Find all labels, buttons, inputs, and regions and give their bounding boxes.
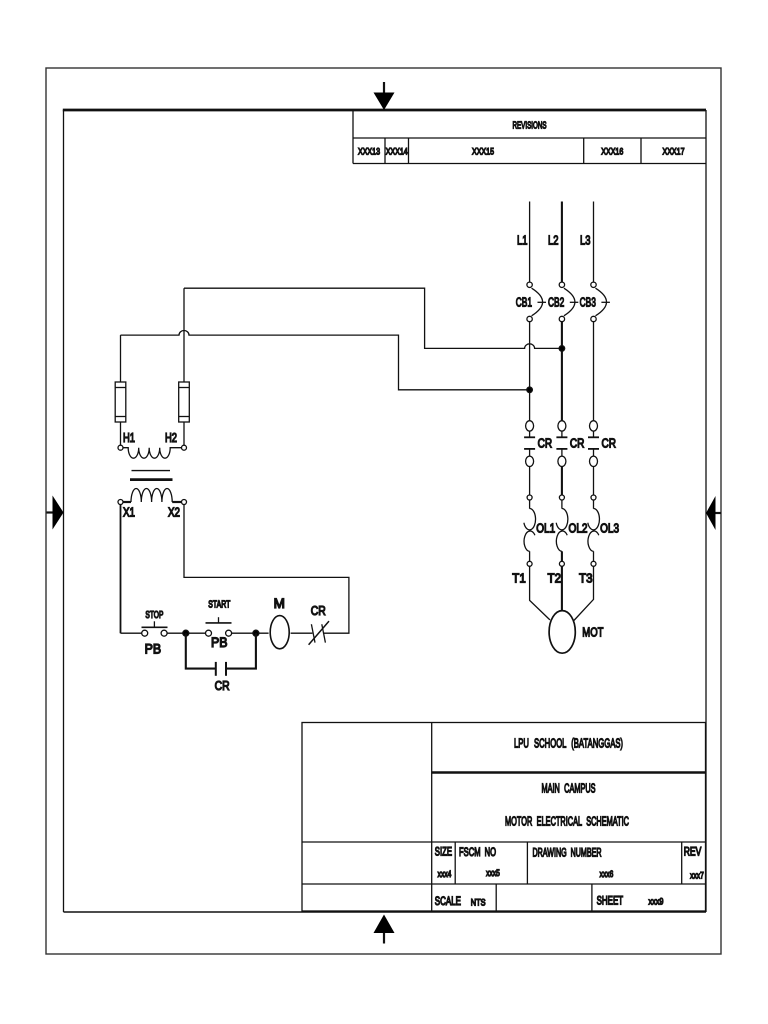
transformer core <box>130 471 173 480</box>
transformer secondary winding <box>123 489 182 503</box>
svg-text:L3: L3 <box>580 233 591 248</box>
svg-text:START: START <box>208 600 230 611</box>
junction on L2 <box>559 346 565 352</box>
svg-text:XXX17: XXX17 <box>663 146 685 157</box>
svg-text:CB3: CB3 <box>580 295 596 310</box>
svg-text:xxx9: xxx9 <box>649 897 664 907</box>
wire start to junction B <box>232 632 269 634</box>
svg-text:MAIN CAMPUS: MAIN CAMPUS <box>542 782 596 796</box>
svg-text:OL1: OL1 <box>536 521 555 536</box>
wire L3 between CB3 and CR contact <box>593 322 595 421</box>
contactor contact CR phase 3 <box>588 421 599 467</box>
right center alignment arrow <box>706 496 721 530</box>
junction on L1 <box>527 387 533 393</box>
svg-text:T1: T1 <box>512 571 526 586</box>
wire L2 between CR and OL2 <box>561 467 563 496</box>
wire T3 to motor <box>574 566 594 620</box>
svg-text:MOT: MOT <box>582 624 603 639</box>
svg-text:CB2: CB2 <box>548 295 564 310</box>
wire rung left segment <box>121 632 142 634</box>
title block size row dividers <box>455 842 682 884</box>
svg-text:XXX15: XXX15 <box>472 146 494 157</box>
wire coil to CR contact <box>291 632 313 634</box>
svg-text:PB: PB <box>211 635 228 650</box>
wire stop to junction <box>167 632 205 634</box>
wire L1 between CR and OL1 <box>529 467 531 496</box>
svg-text:xxx6: xxx6 <box>600 869 614 879</box>
svg-text:NTS: NTS <box>471 898 486 909</box>
wire L1 between CB1 and CR contact <box>529 322 531 421</box>
svg-text:SCALE: SCALE <box>435 896 461 908</box>
contactor contact CR phase 2 <box>556 421 567 467</box>
svg-text:DRAWING NUMBER: DRAWING NUMBER <box>533 848 602 860</box>
wire from control transformer to L1 (lower tie) <box>121 331 530 390</box>
svg-text:H2: H2 <box>165 431 177 445</box>
svg-text:CR: CR <box>602 436 617 451</box>
svg-text:T3: T3 <box>579 571 593 586</box>
wire X1 down to control rung <box>120 505 122 634</box>
svg-text:xxx5: xxx5 <box>486 868 500 878</box>
fuse F1 <box>115 335 126 445</box>
svg-text:SHEET: SHEET <box>597 896 624 908</box>
svg-text:CR: CR <box>215 678 230 693</box>
wire CR to right corner and back to X2 <box>184 505 349 634</box>
coil M <box>270 616 289 649</box>
title block scale row dividers <box>496 884 592 911</box>
circuit breaker CB1 <box>527 282 546 322</box>
wire from control transformer to L2 (upper tie) <box>184 288 562 348</box>
svg-text:SIZE: SIZE <box>435 847 452 859</box>
svg-text:FSCM NO: FSCM NO <box>459 847 496 859</box>
svg-text:OL2: OL2 <box>569 521 588 536</box>
svg-text:CR: CR <box>538 436 553 451</box>
title block company row divider (thick) <box>432 771 706 774</box>
wire L1 phase vertical top <box>529 202 531 283</box>
relay contact CR (NO seal-in) <box>216 662 226 676</box>
svg-text:MOTOR ELECTRICAL SCHEMATIC: MOTOR ELECTRICAL SCHEMATIC <box>505 815 629 829</box>
transformer primary terminal H1 <box>118 445 123 450</box>
pushbutton STOP (NC) <box>142 621 168 636</box>
svg-text:XXX13: XXX13 <box>358 146 380 157</box>
junction node A <box>183 630 189 636</box>
wire L3 between CR and OL3 <box>593 467 595 496</box>
title block row lines <box>432 842 706 884</box>
overload heater OL1 <box>524 495 536 566</box>
svg-text:XXX16: XXX16 <box>601 146 623 157</box>
svg-text:CR: CR <box>570 436 585 451</box>
title block outline <box>302 723 706 912</box>
wire L2 between CB2 and CR contact <box>561 322 563 421</box>
svg-text:CB1: CB1 <box>516 295 532 310</box>
top center alignment arrow <box>374 82 395 110</box>
svg-text:XXX14: XXX14 <box>386 146 408 157</box>
bottom center alignment arrow <box>374 915 395 944</box>
svg-text:CR: CR <box>311 603 326 618</box>
motor MOT <box>549 611 575 654</box>
svg-text:H1: H1 <box>123 431 135 445</box>
overload heater OL2 <box>556 495 568 566</box>
relay contact CR (NC) <box>309 621 329 645</box>
junction node B <box>253 630 259 636</box>
svg-text:xxx7: xxx7 <box>690 871 704 881</box>
title block left divider <box>431 723 433 912</box>
wire L2 phase vertical top <box>561 202 563 283</box>
svg-text:STOP: STOP <box>145 610 163 621</box>
circuit breaker CB3 <box>591 282 610 322</box>
svg-text:REVISIONS: REVISIONS <box>513 121 547 132</box>
left center alignment arrow <box>47 496 64 530</box>
contactor contact CR phase 1 <box>524 421 535 467</box>
svg-text:X1: X1 <box>123 506 135 520</box>
transformer primary winding <box>123 448 182 459</box>
wire L3 phase vertical top <box>593 202 595 283</box>
transformer secondary terminal X1 <box>118 500 123 505</box>
circuit breaker CB2 <box>559 282 578 322</box>
svg-text:PB: PB <box>145 642 162 657</box>
fuse F2 <box>179 288 190 445</box>
transformer primary terminal H2 <box>182 445 187 450</box>
transformer secondary terminal X2 <box>182 500 187 505</box>
revisions table <box>353 110 706 164</box>
seal-in branch wire <box>186 633 256 668</box>
pushbutton START (NO) <box>206 617 232 636</box>
svg-text:OL3: OL3 <box>600 521 619 536</box>
svg-text:L2: L2 <box>548 233 559 248</box>
svg-text:L1: L1 <box>517 233 528 248</box>
svg-text:M: M <box>274 596 285 611</box>
overload heater OL3 <box>588 495 600 566</box>
svg-text:T2: T2 <box>548 571 562 586</box>
svg-text:REV: REV <box>684 847 702 859</box>
outer page border <box>46 68 721 954</box>
wire T2 to motor <box>561 566 563 610</box>
svg-text:X2: X2 <box>168 506 180 520</box>
inner drawing frame <box>63 110 706 912</box>
svg-text:xxx4: xxx4 <box>438 869 452 879</box>
wire T1 to motor <box>530 566 550 620</box>
title block left rows <box>302 842 432 884</box>
svg-text:LPU SCHOOL (BATANGGAS): LPU SCHOOL (BATANGGAS) <box>514 736 623 751</box>
